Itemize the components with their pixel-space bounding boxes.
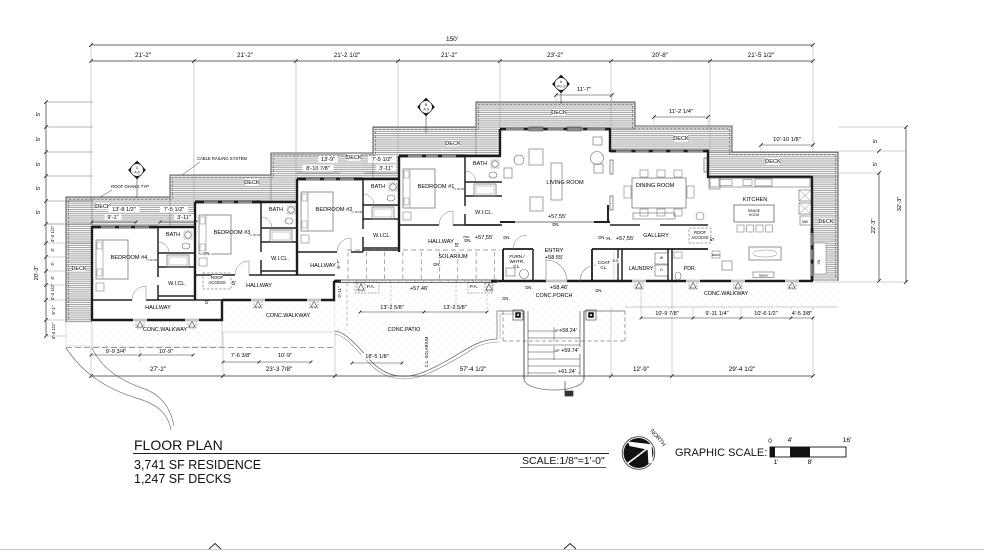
wic label BEDROOM #2 bbox=[371, 232, 393, 238]
svg-text:+61.24': +61.24' bbox=[558, 369, 576, 375]
deck outer boundary cable railing (dashed) bbox=[66, 102, 838, 322]
svg-text:CONC.WALKWAY: CONC.WALKWAY bbox=[266, 313, 311, 319]
svg-text:PO-3: PO-3 bbox=[557, 85, 565, 89]
svg-text:BATH: BATH bbox=[269, 207, 283, 213]
kitchen corner cabinet bbox=[709, 178, 720, 189]
door arc BEDROOM #1 bbox=[439, 211, 453, 225]
svg-text:HALLWAY: HALLWAY bbox=[310, 263, 336, 269]
exterior wall south hallway4 bbox=[91, 319, 223, 321]
svg-text:7'-5 1/2": 7'-5 1/2" bbox=[372, 157, 392, 163]
svg-text:4': 4' bbox=[788, 437, 793, 444]
svg-text:CL.: CL. bbox=[600, 265, 607, 270]
deck band above living room bbox=[476, 102, 635, 156]
svg-text:ROOF OHANG TYP: ROOF OHANG TYP bbox=[111, 184, 149, 189]
svg-text:LIVING ROOM: LIVING ROOM bbox=[546, 180, 584, 186]
svg-text:KITCHEN: KITCHEN bbox=[743, 197, 768, 203]
svg-text:TV NICHE: TV NICHE bbox=[453, 189, 464, 191]
solarium floor level bbox=[473, 234, 495, 240]
kitchen stools bbox=[737, 225, 744, 232]
svg-text:BEDROOM #4: BEDROOM #4 bbox=[111, 255, 148, 261]
dining table and chairs bbox=[632, 178, 686, 208]
graphic scale bar bbox=[770, 447, 846, 457]
svg-text:9'-1": 9'-1" bbox=[107, 215, 118, 221]
exterior wall north bedroom4 with window bbox=[92, 225, 158, 227]
bath label BEDROOM #1 bbox=[473, 160, 486, 166]
solarium label bbox=[440, 253, 465, 259]
svg-text:HALLWAY: HALLWAY bbox=[428, 239, 454, 245]
bath door arc BEDROOM #3 bbox=[261, 217, 272, 228]
svg-text:5'-1": 5'-1" bbox=[51, 305, 56, 315]
svg-text:DECK: DECK bbox=[445, 141, 461, 147]
bed BEDROOM #4 bbox=[96, 240, 128, 279]
svg-text:DN.: DN. bbox=[598, 235, 605, 240]
svg-text:4'-4 1/2": 4'-4 1/2" bbox=[50, 225, 55, 242]
barn door marks dining bbox=[610, 160, 613, 174]
svg-text:DN.: DN. bbox=[464, 238, 471, 243]
door arc BEDROOM #4 bbox=[132, 286, 146, 300]
dimension 11-2 1/4 above dining deck bbox=[654, 116, 708, 118]
porch dashed boundary bbox=[503, 340, 625, 342]
deck band above bedroom 4 bbox=[92, 197, 170, 227]
bath fixtures BEDROOM #4 bbox=[185, 232, 191, 238]
bath door arc BEDROOM #4 bbox=[158, 242, 169, 253]
exterior wall south step hallway3/hallway4 bbox=[221, 300, 223, 321]
section marker at 426,107 bbox=[418, 98, 435, 116]
svg-text:DECK: DECK bbox=[72, 266, 87, 272]
bath fixtures BEDROOM #3 bbox=[288, 207, 294, 213]
svg-text:ACCESS: ACCESS bbox=[208, 280, 225, 285]
exterior wall west bedroom4 bbox=[91, 226, 93, 321]
svg-text:TV NICHE: TV NICHE bbox=[249, 235, 260, 237]
svg-text:20'-3": 20'-3" bbox=[34, 266, 40, 281]
stair flag symbol bbox=[564, 381, 566, 393]
wic label BEDROOM #4 bbox=[166, 280, 188, 286]
entry door opening in south wall bbox=[546, 280, 567, 283]
stair landing labels bbox=[557, 327, 579, 333]
pa labels bbox=[365, 284, 377, 290]
svg-text:P.A.: P.A. bbox=[367, 284, 375, 290]
roof access dashed box near hallway3 bbox=[203, 273, 231, 289]
entry furnace closet bbox=[503, 248, 533, 250]
svg-text:W.I.CL.: W.I.CL. bbox=[373, 233, 391, 239]
svg-text:1,247 SF DECKS: 1,247 SF DECKS bbox=[134, 472, 231, 486]
deck band above dining room bbox=[610, 126, 732, 152]
dimension 10-10 1/8 top right bbox=[761, 144, 813, 146]
svg-text:DINING ROOM: DINING ROOM bbox=[636, 183, 675, 189]
deck label west strip bbox=[72, 265, 85, 271]
svg-text:9'-9 3/4": 9'-9 3/4" bbox=[106, 349, 126, 355]
deck label band dining bbox=[674, 135, 688, 141]
svg-text:23'-3 7/8": 23'-3 7/8" bbox=[266, 366, 293, 373]
svg-text:TV NICHE: TV NICHE bbox=[351, 212, 362, 214]
svg-text:4': 4' bbox=[50, 262, 55, 266]
living room furniture bbox=[529, 149, 543, 165]
svg-text:7'-5 1/2": 7'-5 1/2" bbox=[164, 207, 184, 213]
conc walkway below hallway bedroom3 bbox=[222, 300, 335, 332]
svg-text:GRAPHIC SCALE:: GRAPHIC SCALE: bbox=[675, 447, 767, 459]
svg-text:13'-2 5/8": 13'-2 5/8" bbox=[443, 305, 467, 311]
svg-text:CONC.PORCH: CONC.PORCH bbox=[536, 293, 573, 299]
lower sheet marker 2 bbox=[564, 544, 576, 550]
svg-text:+57.55': +57.55' bbox=[548, 214, 566, 220]
svg-text:18'-5 1/8": 18'-5 1/8" bbox=[365, 354, 389, 360]
svg-text:+57,55': +57,55' bbox=[475, 235, 493, 241]
hallway wall bedroom3 east part bbox=[261, 274, 335, 276]
entry door arc bbox=[546, 260, 567, 281]
bed BEDROOM #2 bbox=[301, 192, 333, 231]
door arc BEDROOM #3 bbox=[235, 261, 249, 275]
exterior wall east living room bbox=[609, 129, 611, 152]
svg-text:DECK: DECK bbox=[819, 219, 834, 225]
svg-text:3'-11": 3'-11" bbox=[177, 215, 191, 221]
svg-text:3'-11": 3'-11" bbox=[337, 286, 342, 298]
svg-text:CABLE RAILING SYSTEM: CABLE RAILING SYSTEM bbox=[197, 156, 248, 161]
svg-text:DN.: DN. bbox=[433, 262, 440, 267]
dashed roof line south of hallway2 bbox=[346, 283, 348, 327]
svg-text:11'-7": 11'-7" bbox=[577, 87, 591, 93]
svg-text:B.S.: B.S. bbox=[613, 259, 620, 263]
conc walkway below west deck bbox=[66, 322, 92, 346]
dims below bedroom4 walkway bbox=[91, 354, 193, 356]
partitions BEDROOM #4 bbox=[157, 227, 159, 277]
hallway wall bedroom4 east part bbox=[158, 299, 222, 301]
svg-text:UP: UP bbox=[554, 329, 560, 333]
exterior wall north kitchen bbox=[707, 176, 813, 178]
svg-text:SOLARIUM: SOLARIUM bbox=[438, 254, 468, 260]
svg-text:13'-8 1/2": 13'-8 1/2" bbox=[112, 207, 136, 213]
exterior wall west bedroom3 module bbox=[194, 202, 196, 300]
kitchen north counter bbox=[710, 178, 810, 187]
deck label band bedroom4 bbox=[96, 203, 110, 209]
dimension line 150 ft overall bbox=[91, 44, 813, 46]
post symbols on walkways bbox=[136, 320, 144, 328]
deck strip east of kitchen bbox=[812, 177, 838, 281]
svg-text:5': 5' bbox=[873, 162, 879, 166]
dining room label bbox=[638, 182, 672, 188]
dims 13-2 5/8 patio bbox=[360, 311, 487, 313]
svg-text:5': 5' bbox=[36, 162, 42, 166]
svg-text:A-5: A-5 bbox=[134, 171, 140, 175]
svg-text:CONC.WALKWAY: CONC.WALKWAY bbox=[704, 291, 749, 297]
svg-text:DN.: DN. bbox=[525, 285, 532, 290]
bath door arc BEDROOM #2 bbox=[363, 194, 374, 205]
svg-text:21'-2": 21'-2" bbox=[441, 52, 457, 59]
deck label band kitchen bbox=[766, 158, 780, 164]
svg-text:TV NICHE: TV NICHE bbox=[146, 260, 157, 262]
svg-text:12'-9": 12'-9" bbox=[633, 366, 649, 373]
svg-text:4'-4 1/2": 4'-4 1/2" bbox=[51, 322, 56, 339]
svg-text:21'-2 1/2": 21'-2 1/2" bbox=[334, 52, 361, 59]
deck dims band bedroom4 bbox=[108, 206, 139, 212]
svg-text:10'-9": 10'-9" bbox=[159, 349, 173, 355]
exterior wall west bedroom1 module bbox=[398, 156, 400, 252]
conc porch below entry bbox=[503, 281, 625, 341]
svg-text:5': 5' bbox=[710, 237, 716, 241]
svg-text:150': 150' bbox=[446, 36, 458, 43]
svg-text:DN.: DN. bbox=[503, 235, 510, 240]
exterior wall north bedroom2 with window bbox=[297, 177, 363, 179]
svg-text:HALLWAY: HALLWAY bbox=[246, 283, 272, 289]
svg-text:BEDROOM #3: BEDROOM #3 bbox=[214, 230, 251, 236]
svg-text:W.I.CL.: W.I.CL. bbox=[475, 210, 493, 216]
svg-text:P.A.: P.A. bbox=[470, 284, 478, 290]
svg-text:8'-10 7/8": 8'-10 7/8" bbox=[306, 166, 330, 172]
svg-text:FLOOR PLAN: FLOOR PLAN bbox=[134, 437, 223, 453]
deck stair well east bbox=[814, 243, 826, 274]
svg-text:5': 5' bbox=[455, 243, 459, 249]
svg-text:1': 1' bbox=[774, 459, 779, 466]
partitions BEDROOM #1 bbox=[464, 156, 466, 206]
sheet lower border line bbox=[0, 549, 984, 551]
dims south walkway kitchen bbox=[692, 307, 694, 318]
svg-text:5': 5' bbox=[36, 186, 42, 190]
deck band above kitchen bbox=[708, 152, 838, 177]
svg-text:32'-3": 32'-3" bbox=[897, 197, 903, 212]
svg-text:BATH: BATH bbox=[473, 161, 487, 167]
dining plant bbox=[696, 212, 704, 220]
lower sheet marker 1 bbox=[209, 544, 221, 550]
hallway wall bedroom1 east part bbox=[465, 224, 500, 226]
svg-text:DECK: DECK bbox=[244, 180, 260, 186]
deck left strip (west of bedroom 4) bbox=[66, 197, 92, 322]
south wall posts bbox=[635, 281, 643, 289]
partitions BEDROOM #2 bbox=[362, 179, 364, 229]
svg-text:3,741 SF RESIDENCE: 3,741 SF RESIDENCE bbox=[134, 458, 261, 472]
solarium dashed mullion grid bbox=[347, 252, 349, 279]
svg-text:9'-11 1/4": 9'-11 1/4" bbox=[705, 311, 728, 317]
svg-text:8': 8' bbox=[808, 459, 813, 466]
svg-text:MW: MW bbox=[802, 220, 808, 224]
kitchen island bbox=[734, 205, 774, 222]
right dimension line 22ft-3in bbox=[878, 173, 880, 281]
exterior wall north bedroom3 with window bbox=[195, 200, 261, 202]
svg-text:DN.: DN. bbox=[203, 251, 210, 256]
svg-text:4'-5 3/8": 4'-5 3/8" bbox=[792, 311, 812, 317]
svg-text:W.I.CL.: W.I.CL. bbox=[168, 281, 186, 287]
svg-text:10'-10 1/8": 10'-10 1/8" bbox=[773, 137, 801, 143]
svg-text:DECK: DECK bbox=[765, 159, 781, 165]
svg-text:PDR.: PDR. bbox=[684, 266, 696, 272]
svg-text:5': 5' bbox=[873, 139, 879, 143]
living south floor edge bbox=[503, 221, 607, 223]
bed BEDROOM #3 bbox=[199, 215, 231, 254]
svg-text:BEDROOM #2: BEDROOM #2 bbox=[316, 207, 353, 213]
svg-text:4': 4' bbox=[50, 248, 55, 252]
svg-text:21'-5 1/2": 21'-5 1/2" bbox=[748, 52, 775, 59]
solarium south window wall bbox=[335, 279, 497, 281]
svg-text:BATH: BATH bbox=[371, 184, 385, 190]
svg-text:5': 5' bbox=[36, 137, 42, 141]
svg-text:ACCESS: ACCESS bbox=[691, 235, 708, 240]
svg-text:+59.74': +59.74' bbox=[561, 348, 579, 354]
exterior wall west living room bbox=[499, 129, 501, 156]
stair bottom arc bbox=[524, 379, 584, 390]
svg-text:W.I.CL.: W.I.CL. bbox=[271, 256, 289, 262]
svg-text:DN: DN bbox=[817, 259, 821, 264]
svg-text:HALLWAY: HALLWAY bbox=[145, 305, 171, 311]
kitchen table bbox=[749, 247, 781, 260]
bath label BEDROOM #2 bbox=[371, 183, 384, 189]
svg-text:+58.24': +58.24' bbox=[559, 328, 577, 334]
svg-text:27'-2": 27'-2" bbox=[150, 366, 166, 373]
solarium dashed north boundary bbox=[347, 249, 500, 251]
exterior wall west kitchen nook bbox=[707, 151, 709, 178]
bath label BEDROOM #4 bbox=[166, 231, 179, 237]
dining south wall bbox=[610, 224, 640, 226]
svg-text:C.L. SOLARIUM: C.L. SOLARIUM bbox=[424, 336, 429, 367]
svg-text:+57,55': +57,55' bbox=[616, 236, 634, 242]
deck label band living bbox=[552, 109, 566, 115]
svg-text:5': 5' bbox=[36, 210, 42, 214]
svg-text:HOOD: HOOD bbox=[749, 213, 760, 217]
deck band above bedroom 3 bbox=[170, 175, 271, 227]
conc walkway below laundry wing and kitchen bbox=[625, 281, 838, 307]
service rooms walls (coat/laundry/pdr) bbox=[592, 248, 708, 250]
exterior wall south step at solarium bbox=[333, 281, 335, 301]
svg-text:21'-2": 21'-2" bbox=[135, 52, 151, 59]
kitchen appliances east wall bbox=[799, 190, 811, 201]
exterior wall west bedroom2 module bbox=[296, 179, 298, 275]
wall openings at south walkway posts bbox=[632, 280, 646, 283]
bed BEDROOM #1 bbox=[403, 169, 435, 208]
svg-text:DN.: DN. bbox=[502, 296, 509, 301]
kitchen small cabinets west bbox=[712, 251, 720, 258]
svg-text:MENU: MENU bbox=[712, 253, 720, 257]
svg-text:5': 5' bbox=[36, 112, 42, 116]
bath door arc BEDROOM #1 bbox=[465, 171, 476, 182]
svg-text:5': 5' bbox=[232, 281, 236, 287]
svg-text:0: 0 bbox=[768, 438, 772, 445]
svg-text:DECK: DECK bbox=[673, 136, 689, 142]
roof access gallery dashed box bbox=[689, 228, 711, 243]
dimension row second: module widths bbox=[91, 60, 813, 62]
conc patio region with curved edge bbox=[335, 281, 503, 376]
svg-text:GALLERY: GALLERY bbox=[643, 233, 669, 239]
dims below bedroom3 walkway bbox=[223, 361, 311, 363]
dining buffet bbox=[633, 213, 675, 219]
wic label BEDROOM #1 bbox=[473, 209, 495, 215]
right dimension line 32ft-3in bbox=[905, 127, 907, 282]
svg-text:29'-4 1/2": 29'-4 1/2" bbox=[729, 366, 756, 373]
svg-text:5': 5' bbox=[205, 300, 209, 306]
svg-text:21'-2": 21'-2" bbox=[237, 52, 253, 59]
svg-text:CONC.PATIO: CONC.PATIO bbox=[388, 327, 421, 333]
right 5ft deck dimensions bbox=[838, 126, 906, 128]
deck band above bedroom 2 bbox=[271, 153, 373, 202]
svg-text:16': 16' bbox=[843, 437, 851, 444]
svg-text:DECK: DECK bbox=[551, 110, 567, 116]
deck label band bedroom3 bbox=[245, 179, 259, 185]
svg-text:10'-6 1/2": 10'-6 1/2" bbox=[754, 311, 778, 317]
section marker at 561,84 bbox=[553, 75, 570, 93]
main bottom dimension line bbox=[91, 375, 813, 377]
left dimension vertical line with 5 ft increments bbox=[45, 102, 47, 336]
hallway label bedroom1 area bbox=[430, 238, 452, 244]
svg-text:+57.46': +57.46' bbox=[410, 286, 428, 292]
deck label band bedroom1 bbox=[446, 140, 460, 146]
exterior wall south hallway3 bbox=[222, 299, 335, 301]
exterior wall south main (entry to kitchen) bbox=[497, 280, 813, 282]
driveway curve west bbox=[66, 348, 171, 430]
svg-text:C: C bbox=[136, 166, 139, 170]
svg-text:CONC.WALKWAY: CONC.WALKWAY bbox=[143, 327, 188, 333]
svg-text:DN.: DN. bbox=[595, 288, 602, 293]
svg-text:BATH: BATH bbox=[166, 232, 180, 238]
svg-text:4': 4' bbox=[50, 276, 55, 280]
svg-text:7'-6 3/8": 7'-6 3/8" bbox=[231, 353, 251, 359]
dn labels bbox=[203, 251, 212, 256]
section marker at 137,170 bbox=[129, 161, 146, 179]
svg-text:22'-3": 22'-3" bbox=[871, 219, 877, 234]
coat door arc bbox=[580, 265, 596, 281]
dimension 11-7 above living deck bbox=[556, 94, 612, 96]
conc walkway below hallway bedroom4 bbox=[92, 320, 222, 347]
svg-text:DN.: DN. bbox=[552, 222, 559, 227]
exterior wall north bedroom1 with window bbox=[399, 154, 465, 156]
svg-text:20'-8": 20'-8" bbox=[652, 52, 668, 59]
svg-text:10'-9": 10'-9" bbox=[278, 353, 292, 359]
wic label BEDROOM #3 bbox=[269, 255, 291, 261]
door arc BEDROOM #2 bbox=[337, 238, 351, 252]
patio curved edge bbox=[335, 331, 497, 376]
porch column footings bbox=[513, 310, 523, 320]
svg-text:A-5: A-5 bbox=[423, 108, 429, 112]
dim 18-5 1/8 patio curve bbox=[361, 353, 392, 359]
long dashed property line west bbox=[66, 347, 335, 349]
svg-text:23'-2": 23'-2" bbox=[547, 52, 563, 59]
svg-text:UP: UP bbox=[555, 349, 561, 353]
deck dims band bedroom2 bbox=[318, 156, 338, 162]
svg-text:11'-2 1/4": 11'-2 1/4" bbox=[669, 109, 693, 115]
svg-text:LAUNDRY: LAUNDRY bbox=[629, 266, 654, 272]
svg-text:3'-11": 3'-11" bbox=[379, 166, 393, 172]
exterior wall east kitchen with windows bbox=[811, 177, 813, 228]
bs closet bbox=[613, 251, 615, 279]
entry stairs bbox=[523, 311, 525, 379]
svg-text:4'-4 1/2": 4'-4 1/2" bbox=[50, 283, 55, 300]
left lower dimension labels bbox=[44, 241, 48, 245]
bath fixtures BEDROOM #2 bbox=[390, 184, 396, 190]
bath label BEDROOM #3 bbox=[269, 206, 282, 212]
furn closet door arc bbox=[513, 235, 527, 249]
svg-text:13'-2 5/8": 13'-2 5/8" bbox=[380, 305, 404, 311]
svg-text:ENTRY: ENTRY bbox=[545, 248, 564, 254]
exterior wall north living room with windows bbox=[500, 127, 611, 129]
svg-text:6'-7": 6'-7" bbox=[336, 259, 341, 269]
vertical extension lines from top dimensions bbox=[90, 45, 92, 197]
solarium south glass wall ticks bbox=[338, 279, 342, 283]
partitions BEDROOM #3 bbox=[260, 202, 262, 252]
hallway wall bedroom2 east part bbox=[363, 249, 400, 251]
svg-text:DECK: DECK bbox=[346, 155, 362, 161]
bath fixtures BEDROOM #1 bbox=[492, 161, 498, 167]
porch edge double line to stairs bbox=[497, 311, 524, 339]
svg-text:13'-9": 13'-9" bbox=[321, 157, 335, 163]
exterior wall north dining room with windows bbox=[610, 149, 709, 151]
title underline bbox=[133, 453, 609, 455]
kitchen media cabinet bbox=[753, 272, 774, 278]
deck band above bedroom 1 bbox=[373, 127, 476, 179]
svg-text:BEDROOM #1: BEDROOM #1 bbox=[418, 184, 455, 190]
svg-text:MEDIA: MEDIA bbox=[759, 273, 768, 277]
svg-text:10'-9 7/8": 10'-9 7/8" bbox=[655, 311, 679, 317]
wall openings at walkway posts bbox=[133, 319, 147, 322]
deck label east strip bbox=[819, 218, 832, 224]
svg-text:SCALE:1/8"=1'-0": SCALE:1/8"=1'-0" bbox=[522, 455, 605, 467]
svg-text:+58.46': +58.46' bbox=[550, 285, 568, 291]
long dashed line below porch east bbox=[624, 340, 626, 342]
north arrow bbox=[622, 428, 666, 469]
